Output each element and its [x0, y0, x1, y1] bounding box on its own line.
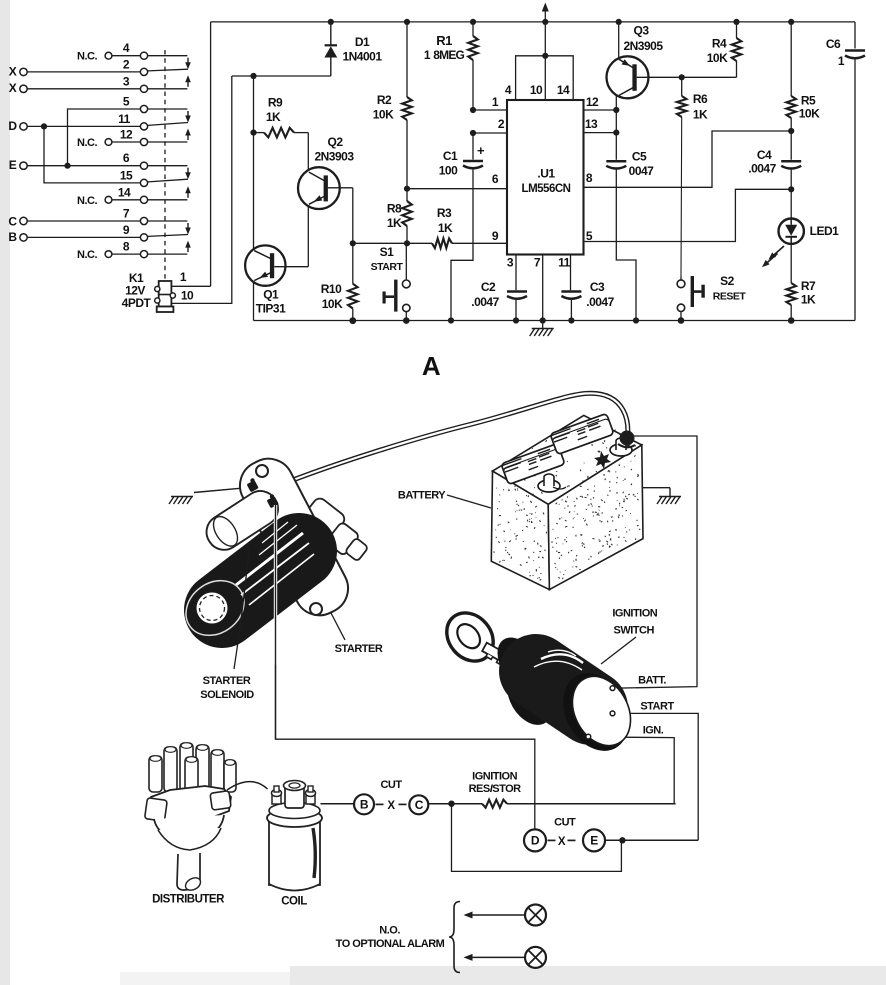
svg-text:N.C.: N.C. [77, 137, 97, 149]
wire Q1 emitter to rail [253, 282, 255, 321]
starter motor body [222, 551, 299, 610]
svg-text:10K: 10K [373, 108, 394, 122]
ground symbol main [542, 321, 544, 329]
contact circle pin 5 [140, 105, 147, 112]
wire Q3 collector [615, 95, 617, 160]
contact circle pin 8 [140, 251, 147, 258]
battery left face [491, 471, 549, 589]
wire Q3 emitter from rail [618, 22, 620, 59]
coil bolt right [306, 794, 315, 804]
node E junction [619, 837, 625, 843]
capacitor C1 [463, 160, 483, 163]
node S2 bottom [678, 317, 685, 324]
svg-text:START: START [640, 701, 674, 713]
node R5 bottom junction [788, 128, 794, 134]
switch S2 [680, 276, 682, 280]
LED LED1 [790, 189, 792, 218]
svg-text:3: 3 [123, 74, 130, 88]
coil body [269, 820, 320, 885]
svg-text:Q1: Q1 [263, 288, 279, 302]
wire solenoid to D [276, 508, 535, 829]
wire right edge above C6 [854, 22, 856, 49]
relay actuator dashed line [164, 50, 166, 281]
svg-text:2: 2 [123, 57, 130, 71]
svg-text:E: E [9, 158, 17, 172]
contact circle pin 11 [140, 123, 147, 130]
svg-text:SWITCH: SWITCH [614, 625, 655, 637]
node R7 bottom [788, 317, 795, 324]
node pin2 junction [470, 130, 476, 136]
svg-text:STARTER: STARTER [203, 675, 251, 687]
contact circle pin 14 [140, 196, 147, 203]
node C3 ground [568, 317, 574, 323]
node R2 top [404, 19, 410, 25]
transistor Q1 [245, 245, 285, 285]
svg-text:RESET: RESET [713, 291, 747, 303]
node R5 top [788, 19, 794, 25]
svg-text:D1: D1 [355, 35, 370, 49]
capacitor C3 [561, 290, 581, 293]
svg-text:CUT: CUT [380, 779, 402, 791]
wire trigger line to pin 9 [452, 242, 507, 244]
coil bolt left [272, 794, 281, 804]
distributor bowl [154, 815, 224, 841]
svg-text:R10: R10 [321, 282, 342, 296]
wire starter ground link [194, 488, 240, 492]
wire pin6 line [407, 188, 507, 190]
svg-text:C3: C3 [590, 280, 605, 294]
svg-text:R9: R9 [268, 96, 283, 110]
contact circle pin 12 [140, 138, 147, 145]
wire pin 8 line [584, 131, 792, 187]
svg-text:1K: 1K [801, 293, 816, 307]
distributor latch left [145, 798, 168, 822]
svg-text:R3: R3 [437, 206, 452, 220]
wire pin 11 [570, 255, 572, 291]
ignition terminal IGN [586, 734, 591, 739]
svg-text:1K: 1K [266, 110, 281, 124]
svg-text:D: D [8, 119, 17, 133]
supply arrow up [544, 9, 546, 22]
svg-text:Q2: Q2 [327, 135, 343, 149]
wire Q1 collector [253, 76, 255, 249]
transistor Q2 [298, 167, 340, 209]
contact circle pin 4 [140, 52, 147, 59]
alarm lamp bottom [525, 947, 546, 968]
svg-text:R8: R8 [387, 202, 402, 216]
starter solenoid label leader [234, 549, 249, 669]
svg-text:2N3905: 2N3905 [623, 39, 663, 53]
wire relay pin 10 to node [171, 76, 231, 303]
svg-text:1K: 1K [438, 221, 453, 235]
wire pin 12 [584, 109, 617, 111]
ignition key ring [437, 604, 503, 671]
wire pin 2 [473, 132, 507, 134]
node Q3 emitter rail [616, 19, 622, 25]
svg-text:1: 1 [838, 54, 845, 68]
contact circle pin 7 [140, 217, 147, 224]
node pin12 junction [613, 107, 619, 113]
cut point C [409, 795, 428, 814]
relay contact group 7-9-8 [148, 220, 188, 222]
svg-text:1N4001: 1N4001 [342, 50, 382, 64]
node R6 top [679, 74, 685, 80]
cut point B [354, 794, 374, 814]
starter motor highlights [236, 533, 303, 585]
svg-text:DISTRIBUTER: DISTRIBUTER [152, 894, 225, 906]
ignition resistor zigzag [482, 800, 507, 808]
svg-text:LM556CN: LM556CN [522, 183, 571, 195]
wire D1 anode horizontal [232, 75, 331, 77]
svg-text:STARTER: STARTER [335, 643, 383, 655]
svg-text:B: B [360, 798, 369, 812]
svg-text:RESISTOR: RESISTOR [469, 783, 522, 795]
node trigger junction [350, 240, 356, 246]
wire C2 bottom [515, 298, 517, 321]
wire C1 to ground jog [451, 168, 473, 321]
distributor shaft [177, 853, 200, 890]
relay contact group 6-15-14 [148, 165, 188, 167]
svg-text:10K: 10K [707, 51, 728, 65]
svg-text:6: 6 [123, 151, 130, 165]
node S1 bottom [403, 317, 410, 324]
starter plate bolt hole 1 [256, 465, 268, 477]
battery post 1 [538, 480, 560, 492]
contact circle pin 6 [140, 162, 147, 169]
transistor Q3 [607, 56, 649, 98]
wire +12V top rail [211, 21, 855, 23]
svg-text:N.C.: N.C. [77, 249, 97, 261]
svg-text:11: 11 [118, 112, 131, 126]
wire pin 3 [515, 255, 517, 291]
svg-text:IGNITION: IGNITION [612, 608, 657, 620]
switch S1 [405, 243, 407, 280]
node R9 left junction [250, 130, 256, 136]
cut point E [583, 829, 605, 851]
svg-text:X: X [558, 836, 566, 848]
relay contact group 5-11-12 [148, 108, 188, 110]
svg-text:C: C [415, 798, 424, 812]
svg-text:2: 2 [498, 117, 505, 131]
node R8 bottom junction [404, 240, 410, 246]
svg-text:N.O.: N.O. [379, 925, 400, 937]
wire IGN to resistor line [590, 737, 674, 804]
capacitor C4 [781, 160, 801, 163]
svg-text:7: 7 [534, 256, 541, 270]
svg-text:R5: R5 [801, 94, 816, 108]
svg-text:E: E [590, 834, 598, 848]
wire C1 top [472, 133, 474, 160]
node pin13 junction [613, 130, 619, 136]
battery post 2 [610, 444, 632, 456]
node R4 top [733, 19, 739, 25]
wire C4 top [790, 131, 792, 160]
svg-text:11: 11 [558, 256, 571, 270]
wire C5 to ground jog [616, 168, 636, 321]
LED1 emission arrows [771, 246, 784, 258]
svg-text:5: 5 [123, 95, 130, 109]
svg-text:9: 9 [492, 229, 499, 243]
svg-text:X: X [9, 64, 17, 78]
node R10 bottom [349, 317, 356, 324]
svg-text:12: 12 [120, 128, 133, 142]
wire row15 to row11 bracket [44, 126, 140, 182]
ignition terminal BATT [610, 686, 615, 691]
battery cable clamp [620, 431, 635, 446]
wire battery cable double [264, 393, 628, 491]
node Q1 collector junction [250, 73, 256, 79]
svg-text:14: 14 [557, 83, 570, 97]
ground symbol battery [659, 496, 681, 498]
alarm brace [449, 902, 460, 973]
wire ignition resistor line [428, 803, 482, 805]
coil top rim [267, 809, 322, 827]
svg-text:8: 8 [123, 240, 130, 254]
svg-text:R7: R7 [801, 279, 816, 293]
contact circle pin 15 [140, 179, 147, 186]
battery top face [493, 415, 642, 504]
svg-text:A: A [422, 351, 441, 381]
svg-text:TIP31: TIP31 [256, 302, 286, 316]
svg-text:1: 1 [492, 95, 499, 109]
svg-text:C5: C5 [632, 150, 647, 164]
wire E to riser [605, 839, 698, 841]
ignition switch label leader [601, 637, 636, 664]
wire battery to ignition BATT [614, 436, 697, 688]
IC U1 body [507, 100, 584, 255]
svg-text:SOLENOID: SOLENOID [200, 689, 254, 701]
svg-text:S2: S2 [720, 274, 735, 288]
wire C3 bottom [570, 298, 572, 321]
distributor to coil wire [227, 782, 268, 790]
svg-text:N.C.: N.C. [77, 195, 97, 207]
wire row5 to row6 bracket [68, 109, 141, 166]
svg-text:4: 4 [505, 83, 512, 97]
alarm wire bottom [466, 956, 525, 958]
capacitor C6 [845, 49, 865, 52]
svg-text:3: 3 [507, 256, 514, 270]
relay contact group 4-2-3 [148, 55, 188, 57]
battery label leader [447, 495, 491, 508]
distributor latch right [210, 791, 231, 810]
svg-text:4PDT: 4PDT [122, 296, 152, 310]
svg-text:4: 4 [123, 41, 130, 55]
battery cap 2 [550, 413, 614, 454]
wire pin 1 [473, 109, 507, 111]
svg-text:C1: C1 [443, 149, 458, 163]
node C5 ground [633, 317, 639, 323]
svg-text:R4: R4 [712, 37, 727, 51]
ignition switch collar [489, 630, 550, 697]
wire Q2 emitter to Q1 base [307, 206, 309, 267]
scan edge band left [0, 0, 10, 985]
wire pin 5 line [584, 189, 792, 241]
wire pin 13 [584, 132, 617, 134]
svg-text:.0047: .0047 [471, 295, 499, 309]
ignition terminal START [610, 711, 615, 716]
svg-text:R1: R1 [436, 33, 452, 48]
wire pin 7 [542, 255, 544, 321]
starter motor end face [175, 569, 255, 646]
svg-text:2N3903: 2N3903 [314, 150, 354, 164]
svg-text:+: + [477, 143, 485, 158]
starter solenoid terminal 1 [247, 480, 259, 492]
battery bolt star [594, 451, 611, 469]
cut dashes B-X-C [376, 803, 384, 805]
svg-text:.0047: .0047 [586, 295, 614, 309]
wire battery ground link [560, 487, 670, 489]
svg-text:0047: 0047 [629, 164, 655, 178]
svg-text:1K: 1K [693, 108, 708, 122]
wire trigger line left [353, 242, 432, 244]
svg-text:C4: C4 [757, 148, 772, 162]
wire bypass C to E [452, 804, 622, 872]
svg-text:X: X [387, 800, 395, 812]
resistor R7 [786, 283, 796, 305]
svg-text:C2: C2 [481, 280, 496, 294]
node resistor line junction [448, 801, 454, 807]
svg-text:9: 9 [123, 223, 130, 237]
wire Q2 collector from R9 [307, 133, 309, 171]
battery cap 1 [501, 443, 565, 484]
ignition switch barrel [536, 671, 591, 708]
svg-text:10K: 10K [799, 107, 820, 121]
svg-text:15: 15 [120, 168, 133, 182]
IC top pins bus [516, 56, 574, 100]
cut dashes D-X-E [548, 839, 556, 841]
svg-text:100: 100 [439, 164, 458, 178]
svg-text:1: 1 [180, 270, 187, 284]
svg-text:N.C.: N.C. [77, 51, 97, 63]
node pin1 junction [470, 107, 476, 113]
svg-text:8: 8 [586, 171, 593, 185]
relay K1 body [159, 281, 172, 307]
svg-text:.U1: .U1 [537, 167, 555, 181]
ignition switch face [561, 666, 642, 755]
node C1 ground [448, 317, 454, 323]
svg-text:COIL: COIL [281, 896, 307, 908]
svg-text:6: 6 [492, 172, 499, 186]
capacitor C2 [507, 290, 527, 293]
capacitor C5 [606, 160, 626, 163]
cut point D [524, 829, 546, 851]
resistor R5 [790, 22, 792, 96]
wire right edge below C6 [854, 60, 856, 321]
svg-text:12: 12 [586, 95, 599, 109]
svg-text:C: C [8, 215, 17, 229]
alarm wire top [466, 914, 525, 916]
svg-text:B: B [8, 230, 17, 244]
resistor R3 [432, 239, 452, 249]
starter mounting plate [231, 450, 356, 624]
diode D1 [328, 19, 334, 25]
node R1 top [470, 19, 476, 25]
svg-text:C6: C6 [826, 37, 841, 51]
svg-text:10: 10 [181, 289, 194, 303]
distributor towers [149, 756, 162, 792]
wire C4 bottom [790, 168, 792, 190]
svg-text:LED1: LED1 [810, 224, 840, 238]
svg-text:14: 14 [118, 185, 131, 199]
contact circle pin 3 [140, 85, 147, 92]
scan edge band bottom [290, 966, 886, 985]
svg-text:.0047: .0047 [748, 162, 776, 176]
svg-text:7: 7 [123, 207, 130, 221]
resistor R1 [472, 22, 474, 36]
node C2 ground [513, 317, 519, 323]
starter plate bolt hole 2 [310, 603, 322, 615]
contact circle pin 9 [140, 234, 147, 241]
wire Q2 base down [352, 188, 354, 244]
battery right face [548, 445, 643, 590]
svg-text:R6: R6 [693, 92, 708, 106]
svg-text:X: X [9, 81, 17, 95]
svg-text:13: 13 [585, 117, 598, 131]
starter label leader [331, 613, 345, 640]
battery speckle texture [494, 425, 640, 581]
svg-text:BATT.: BATT. [638, 675, 666, 687]
wire START to E node [615, 713, 699, 840]
node C4 bottom junction [788, 186, 794, 192]
resistor R2 [406, 22, 408, 97]
starter solenoid terminal 2 [267, 496, 279, 508]
svg-text:R2: R2 [377, 93, 392, 107]
svg-text:CUT: CUT [554, 817, 576, 829]
svg-text:START: START [371, 261, 404, 273]
distributor cap [146, 786, 231, 821]
svg-text:10K: 10K [322, 297, 343, 311]
svg-text:S1: S1 [380, 245, 395, 259]
resistor R4 [736, 22, 738, 38]
svg-text:D: D [531, 834, 540, 848]
resistor R6 [681, 77, 683, 96]
svg-text:10: 10 [530, 83, 543, 97]
coil center tower [285, 784, 304, 808]
alarm lamp top [525, 905, 546, 926]
ignition switch barrel highlights [541, 654, 583, 663]
resistor R10 [352, 243, 354, 283]
ground symbol starter [171, 496, 193, 498]
wire left edge down to relay pin 1 [210, 22, 212, 286]
wire relay pin 1 [171, 285, 210, 287]
node R2 bottom junction [404, 186, 410, 192]
wire Q3 base to R4 [682, 76, 737, 78]
starter gear housing [297, 496, 375, 568]
ignition key shaft [481, 643, 520, 672]
starter solenoid [200, 485, 284, 557]
svg-text:BATTERY: BATTERY [398, 490, 446, 502]
ignition switch bezel [550, 662, 641, 763]
svg-text:IGN.: IGN. [643, 725, 664, 737]
svg-text:Q3: Q3 [633, 24, 649, 38]
resistor R9 [254, 132, 265, 134]
node pin7 ground [540, 317, 546, 323]
svg-text:1K: 1K [387, 216, 402, 230]
resistor R8 [402, 201, 412, 226]
wire ground bottom rail [254, 320, 856, 322]
wire coil to B [321, 803, 355, 805]
svg-text:IGNITION: IGNITION [472, 771, 517, 783]
contact circle pin 2 [140, 68, 147, 75]
svg-text:TO OPTIONAL ALARM: TO OPTIONAL ALARM [336, 938, 445, 950]
wire solenoid feed over motor [274, 505, 277, 665]
